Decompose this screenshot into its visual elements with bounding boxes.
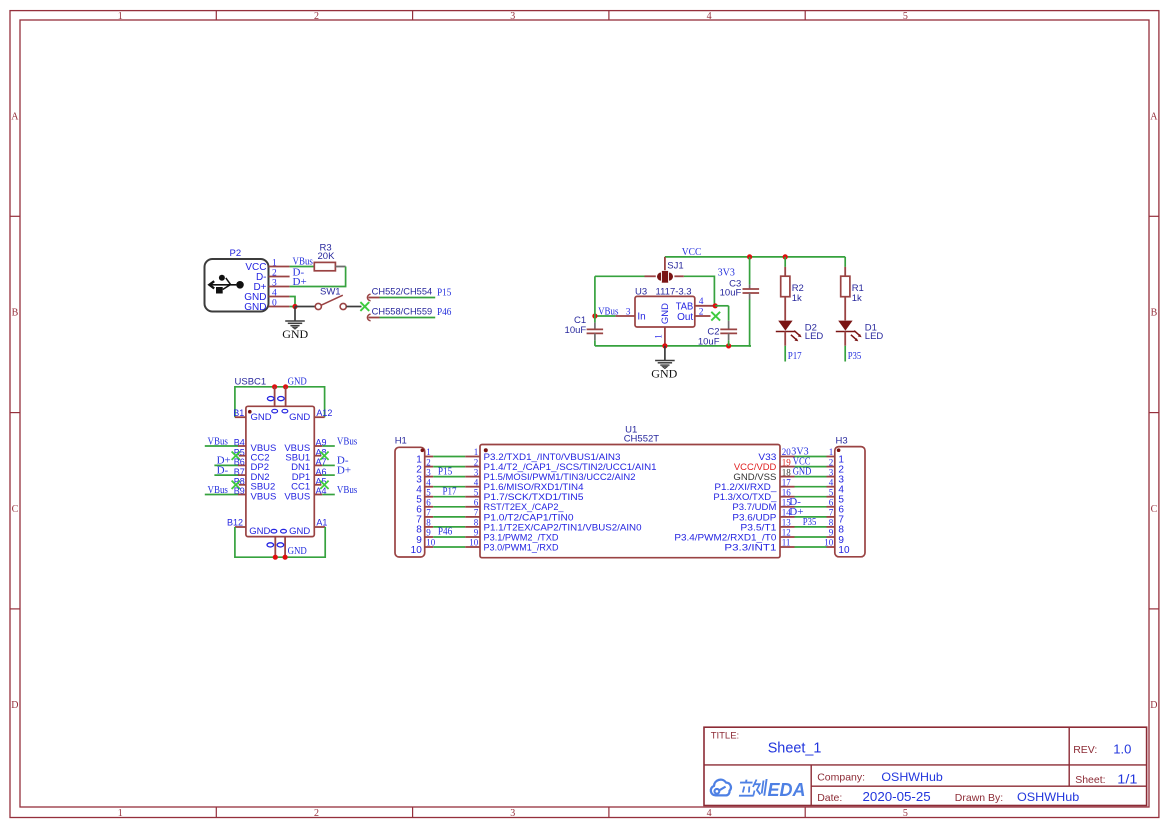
svg-text:D+: D+ — [789, 506, 803, 518]
svg-text:USBC1: USBC1 — [235, 376, 267, 387]
wire H1 pin 8 to U1 — [433, 526, 465, 528]
USBC1 shield pin top right — [285, 387, 287, 407]
svg-text:P1.5/MOSI/PWM1/TIN3/UCC2/AIN2: P1.5/MOSI/PWM1/TIN3/UCC2/AIN2 — [484, 472, 636, 482]
title block Company — [817, 770, 943, 784]
U3 pin 1 stub — [664, 327, 666, 346]
svg-text:P46: P46 — [438, 526, 453, 538]
net label GND above USBC1 — [288, 375, 307, 387]
svg-text:20K: 20K — [318, 251, 336, 262]
USBC1 shield pin bottom left — [274, 537, 276, 558]
svg-text:GND: GND — [660, 303, 671, 324]
svg-text:P3.0/PWM1_/RXD: P3.0/PWM1_/RXD — [484, 542, 559, 552]
U1 pin 16 P1.3/XO/TXD_ — [713, 487, 794, 502]
wire VBus vertical at C1 — [594, 276, 596, 322]
svg-text:P1.0/T2/CAP1/TIN0: P1.0/T2/CAP1/TIN0 — [484, 512, 574, 522]
USBC1 pin B6 DP2 — [214, 455, 269, 474]
svg-text:P1.4/T2_/CAP1_/SCS/TIN2/UCC1/A: P1.4/T2_/CAP1_/SCS/TIN2/UCC1/AIN1 — [484, 462, 657, 472]
wire P2 pin1 to R3 — [290, 266, 315, 268]
svg-text:9: 9 — [426, 528, 431, 538]
svg-text:VBus: VBus — [337, 435, 357, 447]
wire SJ1 to 3V3 node — [684, 276, 715, 306]
svg-text:2: 2 — [829, 457, 834, 467]
USBC1 pin A4 VBUS — [284, 484, 357, 503]
svg-text:3: 3 — [626, 307, 631, 317]
connector USBC1 designator — [235, 376, 267, 387]
svg-text:VBus: VBus — [598, 306, 618, 318]
H3 pin1 marker dot — [837, 448, 841, 452]
svg-text:P46: P46 — [437, 306, 452, 318]
capacitor C2 designator and value — [698, 326, 720, 347]
capacitor C2 — [720, 321, 737, 341]
junction bottom shield left — [273, 555, 278, 560]
svg-text:P3.3/INT1: P3.3/INT1 — [724, 542, 776, 552]
R2 to D2 lead — [784, 297, 786, 321]
resistor R2 designator and value 1k — [792, 283, 804, 304]
net label P17 — [788, 350, 802, 362]
P2 pin 3 D+ — [253, 278, 289, 293]
svg-text:1k: 1k — [852, 293, 862, 304]
LED D2 — [776, 321, 802, 342]
svg-text:GND: GND — [282, 327, 308, 341]
pin CH552/CH554 stub — [368, 297, 379, 299]
svg-text:GND/VSS: GND/VSS — [733, 472, 776, 482]
net label D- right — [789, 496, 801, 508]
USBC1 pin A8 SBU1 — [285, 447, 328, 463]
svg-text:P3.7/UDM: P3.7/UDM — [732, 502, 776, 512]
U3 pin name GND rotated — [660, 303, 671, 324]
svg-text:3: 3 — [829, 467, 834, 477]
net label D+ right — [789, 506, 803, 518]
U1 pin 12 P3.4/PWM2/RXD1_/T0 — [674, 528, 794, 543]
wire gnd stub down from rail — [664, 346, 666, 360]
resistor R3 body — [314, 262, 335, 270]
svg-text:GND: GND — [244, 302, 266, 313]
USBC1 pin A6 DP1 — [292, 464, 351, 483]
svg-text:A12: A12 — [316, 408, 332, 418]
svg-text:6: 6 — [829, 498, 834, 508]
switch SW1 — [315, 295, 346, 309]
svg-text:P2: P2 — [230, 248, 242, 259]
svg-text:P1.7/SCK/TXD1/TIN5: P1.7/SCK/TXD1/TIN5 — [484, 492, 584, 502]
svg-text:VBUS: VBUS — [251, 491, 277, 502]
wire U1 pin 14 to H3 — [795, 516, 827, 518]
U3 pin name TAB — [676, 301, 694, 312]
wire U1 pin 17 to H3 — [795, 486, 827, 488]
capacitor C1 — [587, 323, 604, 341]
junction VCC at R2 — [783, 254, 788, 259]
frame column numbers top — [118, 11, 908, 22]
svg-text:5: 5 — [829, 487, 834, 497]
H1 pin 4 — [416, 477, 433, 495]
P2 pin 1 VCC — [245, 258, 289, 273]
pin arc CH558/CH559 — [367, 314, 370, 320]
svg-text:7: 7 — [829, 508, 834, 518]
svg-text:9: 9 — [829, 528, 834, 538]
wire CH552/CH554 — [380, 297, 436, 299]
H1 pin 6 — [416, 498, 433, 516]
P2 pin 0 GND — [244, 298, 289, 313]
wire H1 pin 5 to U1 — [433, 496, 465, 498]
svg-text:Out: Out — [677, 312, 693, 323]
svg-text:VBus: VBus — [337, 484, 357, 496]
header H3 designator — [836, 436, 848, 447]
U1 pin 10 P3.0 — [465, 538, 559, 553]
U1 pin 19 VCC/VDD — [734, 457, 795, 472]
svg-text:19: 19 — [782, 457, 792, 467]
U1 pin 6 RST — [465, 498, 564, 513]
wire C1 to gnd rail — [594, 340, 596, 346]
capacitor C3 — [743, 285, 760, 300]
net label P46 at CH558 pin — [437, 306, 452, 318]
svg-text:LED: LED — [805, 331, 824, 342]
pin name CH558/CH559 — [372, 307, 433, 317]
svg-text:1k: 1k — [792, 293, 802, 304]
svg-text:P1.6/MISO/RXD1/TIN4: P1.6/MISO/RXD1/TIN4 — [484, 482, 584, 492]
svg-text:8: 8 — [474, 518, 479, 528]
wire VCC to R2 — [784, 257, 786, 267]
svg-text:B1: B1 — [233, 408, 244, 418]
U1 pin 5 P1.7 — [465, 487, 583, 502]
svg-text:4: 4 — [707, 808, 712, 819]
pin name CH552/CH554 — [372, 287, 433, 297]
USB symbol icon inside P2 — [209, 275, 243, 294]
U1 pin 13 P3.5/T1 — [740, 518, 794, 533]
svg-text:3V3: 3V3 — [718, 266, 736, 278]
USBC1 pin A1 — [314, 518, 327, 528]
svg-text:4: 4 — [699, 297, 704, 307]
svg-text:2: 2 — [314, 808, 319, 819]
USBC1 pin A9 VBUS — [284, 435, 357, 454]
net label VCC right — [793, 456, 811, 468]
svg-text:Company:: Company: — [817, 772, 865, 784]
wire H1 pin 3 to U1 — [433, 476, 465, 478]
svg-text:OSHWHub: OSHWHub — [1017, 790, 1080, 804]
svg-text:2: 2 — [314, 11, 319, 22]
wire USBC1 top gnd loop — [235, 387, 325, 417]
wire junction to SW1 — [295, 306, 315, 308]
U1 pin 15 P3.7/UDM — [732, 498, 794, 513]
resistor R1 body — [841, 276, 850, 297]
svg-text:GND: GND — [793, 466, 812, 478]
USBC1 pin B5 CC2 — [232, 447, 270, 463]
svg-text:1.0: 1.0 — [1113, 742, 1131, 756]
svg-text:2020-05-25: 2020-05-25 — [863, 790, 931, 804]
wire TAB to C2 — [715, 306, 728, 321]
solder jumper SJ1 body — [657, 271, 673, 283]
net label GND right — [793, 466, 812, 478]
svg-text:10: 10 — [411, 545, 423, 556]
U1 pin 8 P1.1 — [465, 518, 641, 533]
wire P2 GND pin0 to junction — [290, 306, 295, 308]
resistor R1 designator and value 1k — [852, 283, 864, 304]
shield pad ellipses top outside — [267, 397, 284, 401]
svg-text:V33: V33 — [758, 452, 776, 462]
header H3 body — [835, 447, 865, 557]
net label VBus at U3 — [598, 306, 618, 318]
LED D2 designator and value — [805, 322, 824, 342]
connector P2 designator — [230, 248, 242, 259]
title block sheet name Sheet_1 — [768, 741, 822, 757]
shield pad ellipses bottom outside — [267, 543, 284, 547]
svg-text:1: 1 — [829, 447, 834, 457]
wire H1 pin 9 to U1 — [433, 536, 465, 538]
svg-text:5: 5 — [903, 11, 908, 22]
title block Sheet number — [1075, 772, 1137, 786]
svg-text:Sheet_1: Sheet_1 — [768, 741, 822, 757]
USBC1 inner top GND names — [251, 412, 311, 423]
svg-text:9: 9 — [474, 528, 479, 538]
U1 pin 11 P3.3/INT1 — [724, 538, 794, 553]
svg-text:17: 17 — [782, 477, 792, 487]
svg-text:CH552T: CH552T — [624, 433, 660, 444]
USBC1 pin1 marker dot — [248, 410, 252, 414]
frame column numbers bottom — [118, 808, 908, 819]
wire D2 to P17 — [784, 346, 786, 362]
svg-text:D-: D- — [217, 464, 229, 476]
U1 pin 9 P3.1 — [465, 528, 559, 543]
net label P35 right — [803, 516, 817, 528]
USBC1 pin B4 VBUS — [205, 435, 277, 454]
U3 pin 3 stub — [615, 307, 635, 317]
svg-text:VCC/VDD: VCC/VDD — [734, 462, 777, 472]
svg-text:10uF: 10uF — [720, 288, 742, 299]
U3 pin name Out — [677, 312, 693, 323]
H3 pin 9 — [827, 528, 845, 546]
svg-text:P1.3/XO/TXD_: P1.3/XO/TXD_ — [713, 492, 777, 502]
net label D+ at P2 pin 3 — [293, 276, 307, 288]
USBC1 shield pin top left — [274, 387, 276, 407]
svg-text:EDA: EDA — [768, 780, 806, 800]
svg-text:5: 5 — [426, 487, 431, 497]
svg-text:CH552/CH554: CH552/CH554 — [372, 287, 433, 297]
U3 pin name In — [637, 311, 645, 322]
net label P35 — [848, 350, 862, 362]
U1 pin 1 P3.2 — [465, 447, 620, 462]
svg-text:1/1: 1/1 — [1117, 772, 1137, 786]
H3 pin 10 — [824, 538, 850, 556]
header H1 designator — [395, 436, 407, 447]
P2 pin 4 GND — [244, 288, 289, 303]
svg-text:4: 4 — [707, 11, 712, 22]
svg-text:CH558/CH559: CH558/CH559 — [372, 307, 433, 317]
shield pad ellipses bottom inside — [271, 529, 286, 533]
svg-text:GND: GND — [288, 375, 307, 387]
U1 pin 4 P1.6 — [465, 477, 583, 492]
IC U1 designator and value CH552T — [624, 424, 660, 444]
R1 to D1 lead — [844, 297, 846, 321]
wire H1 pin 10 to U1 — [433, 546, 465, 548]
svg-text:B: B — [1151, 308, 1158, 319]
svg-text:1: 1 — [118, 808, 123, 819]
svg-text:4: 4 — [474, 477, 479, 487]
wire ground rail — [595, 345, 751, 347]
net label VCC top — [682, 246, 702, 258]
svg-text:1: 1 — [118, 11, 123, 22]
wire U1 pin 19 to H3 — [795, 466, 827, 468]
wire H1 pin 1 to U1 — [433, 456, 465, 458]
title block Drawn By — [955, 790, 1080, 804]
D1 bottom lead — [844, 331, 846, 345]
svg-text:5: 5 — [474, 487, 479, 497]
svg-text:SJ1: SJ1 — [667, 261, 683, 272]
svg-text:Date:: Date: — [817, 792, 842, 804]
U3 pin 2 Out stub — [695, 307, 711, 317]
junction bottom shield right — [283, 555, 288, 560]
svg-text:10: 10 — [838, 545, 850, 556]
svg-text:3: 3 — [474, 467, 479, 477]
svg-text:LED: LED — [865, 331, 884, 342]
svg-text:P35: P35 — [803, 516, 817, 528]
svg-text:7: 7 — [474, 508, 479, 518]
wire USBC1 bottom gnd loop — [235, 527, 325, 557]
junction VBus C1 — [592, 313, 597, 318]
wire U1 pin 18 to H3 — [795, 476, 827, 478]
svg-text:10uF: 10uF — [698, 336, 720, 347]
H3 pin 7 — [827, 508, 845, 526]
wire CH558/CH559 — [380, 317, 436, 319]
svg-text:GND: GND — [249, 526, 270, 537]
resistor R2 body — [781, 276, 790, 297]
wire VBus rail to SJ1 — [595, 275, 645, 277]
svg-text:3: 3 — [510, 11, 515, 22]
svg-text:VBus: VBus — [208, 484, 228, 496]
svg-text:A1: A1 — [316, 518, 327, 528]
svg-text:B: B — [12, 308, 19, 319]
wire U1 pin 12 to H3 — [795, 536, 827, 538]
svg-text:13: 13 — [782, 518, 792, 528]
H1 pin 10 — [411, 538, 436, 556]
svg-text:GND: GND — [651, 366, 677, 380]
svg-text:8: 8 — [829, 518, 834, 528]
capacitor C1 designator and value — [565, 315, 587, 336]
pin arc CH552/CH554 — [367, 294, 370, 300]
R2 top lead — [784, 267, 786, 276]
connector P2 (USB) body — [205, 259, 269, 312]
pin CH558/CH559 stub — [368, 317, 379, 319]
R1 top lead — [844, 267, 846, 276]
svg-text:C: C — [1151, 504, 1158, 515]
ground symbol at U3 — [655, 361, 675, 369]
USBC1 pin B12 — [227, 518, 246, 528]
wire U1 pin 20 to H3 — [795, 456, 827, 458]
net label P46 — [438, 526, 453, 538]
wire VCC to R1 — [844, 257, 846, 267]
net label P15 at CH552 pin — [437, 286, 452, 298]
title block Date — [817, 790, 931, 804]
U1 pin 2 P1.4 — [465, 457, 656, 472]
title block border — [704, 727, 1147, 805]
svg-text:GND: GND — [289, 526, 310, 537]
wire H1 pin 2 to U1 — [433, 466, 465, 468]
svg-text:A: A — [1150, 111, 1158, 122]
D2 bottom lead — [784, 331, 786, 345]
svg-text:12: 12 — [782, 528, 791, 538]
svg-text:H1: H1 — [395, 436, 407, 447]
regulator U3 designator and value 1117-3.3 — [635, 287, 692, 298]
svg-text:GND: GND — [251, 412, 272, 423]
SJ1 top pin stub — [664, 257, 666, 270]
svg-text:4: 4 — [426, 477, 431, 487]
connector USBC1 body — [246, 406, 314, 536]
USBC1 pin B1 — [233, 408, 246, 418]
wire H1 pin 4 to U1 — [433, 486, 465, 488]
svg-text:1: 1 — [654, 334, 664, 339]
wire P2 GND pin4 to junction — [290, 297, 295, 307]
SJ1 right pin stub — [674, 275, 683, 277]
svg-text:B12: B12 — [227, 518, 243, 528]
svg-text:18: 18 — [782, 467, 792, 477]
wire D1 to P35 — [844, 346, 846, 362]
svg-text:D: D — [11, 700, 18, 711]
junction at P2 ground node — [292, 304, 297, 309]
USBC1 pin A5 CC1 — [291, 477, 328, 493]
svg-text:D+: D+ — [337, 464, 351, 476]
net label D- at P2 pin 2 — [293, 266, 305, 278]
no-connect X at U3 Out — [711, 312, 720, 321]
P2 pin 2 D- — [256, 268, 290, 283]
svg-text:1: 1 — [426, 447, 431, 457]
svg-text:TAB: TAB — [676, 301, 694, 312]
solder jumper SJ1 designator — [667, 261, 683, 272]
wire VCC down to C3 — [749, 257, 751, 285]
svg-text:1: 1 — [474, 447, 479, 457]
net label 3V3 — [718, 266, 736, 278]
title block TITLE label — [711, 731, 740, 742]
svg-text:7: 7 — [426, 508, 431, 518]
net label 3V3 right — [791, 446, 809, 458]
svg-text:11: 11 — [782, 538, 791, 548]
USBC1 shield pin bottom right — [284, 537, 286, 558]
svg-text:REV:: REV: — [1073, 744, 1097, 756]
shield pad ellipses top inside — [272, 409, 288, 413]
wire VCC rail — [665, 256, 845, 258]
no-connect X at SW1 output — [360, 302, 369, 311]
USBC1 pin A12 — [314, 408, 332, 418]
net label P17 — [443, 485, 457, 497]
U1 pin 3 P1.5 — [465, 467, 635, 482]
H3 pin 5 — [827, 487, 845, 505]
junction gnd at C2 — [726, 343, 731, 348]
svg-text:P1.2/XI/RXD_: P1.2/XI/RXD_ — [714, 482, 777, 492]
svg-text:P3.2/TXD1_/INT0/VBUS1/AIN3: P3.2/TXD1_/INT0/VBUS1/AIN3 — [484, 452, 621, 462]
svg-text:P17: P17 — [443, 485, 457, 497]
LED D1 designator and value — [865, 322, 884, 342]
H1 pin 2 — [416, 457, 433, 475]
svg-text:20: 20 — [782, 447, 792, 457]
svg-text:P3.1/PWM2_/TXD: P3.1/PWM2_/TXD — [484, 532, 559, 542]
svg-text:6: 6 — [474, 498, 479, 508]
junction TAB node — [713, 303, 718, 308]
wire P2 ground down — [294, 307, 296, 322]
USBC1 pin A7 DN1 — [291, 455, 349, 474]
wire C3 to gnd rail — [750, 300, 751, 346]
H1 pin 3 — [416, 467, 433, 485]
H3 pin 1 — [827, 447, 845, 465]
U1 pin 20 V33 — [758, 447, 794, 462]
svg-text:P15: P15 — [438, 465, 453, 477]
svg-text:6: 6 — [426, 498, 431, 508]
USBC1 pin B8 SBU2 — [232, 477, 276, 493]
svg-text:P17: P17 — [788, 350, 802, 362]
svg-text:10: 10 — [824, 538, 834, 548]
USBC1 pin B9 VBUS — [205, 484, 277, 503]
wire U1 pin 13 to H3 — [795, 526, 827, 528]
U1 pin 18 GND/VSS — [733, 467, 794, 482]
USBC1 pin B7 DN2 — [214, 464, 269, 483]
H1 pin 9 — [416, 528, 433, 546]
svg-text:4: 4 — [829, 477, 834, 487]
wire U1 pin 11 to H3 — [795, 546, 827, 548]
